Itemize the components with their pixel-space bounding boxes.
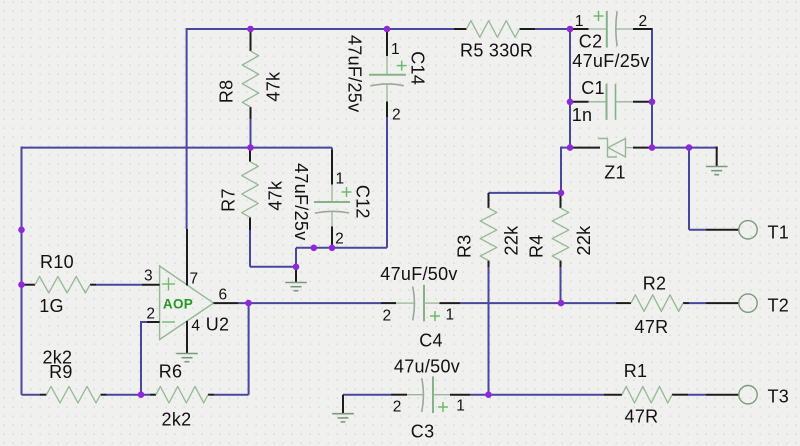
label R6: [159, 362, 183, 382]
wire C2/C1/Z1 left vertical: [569, 29, 571, 148]
wire left vertical to op-amp pin 7: [186, 28, 188, 229]
svg-text:1: 1: [446, 307, 455, 324]
value 47R of R1: [625, 407, 659, 427]
value 47k of R7: [266, 180, 286, 211]
label C4: [419, 331, 443, 351]
svg-text:R7: R7: [219, 188, 239, 212]
junction C12 pin2: [329, 245, 336, 252]
capacitor C2 plate curved: [616, 11, 617, 46]
capacitor C14 plate +: [369, 74, 406, 76]
label R10: [40, 252, 74, 272]
value 2k2 of R6: [162, 410, 192, 430]
svg-text:R8: R8: [217, 79, 237, 103]
pin number 2 of C4: [383, 308, 392, 325]
svg-text:2: 2: [335, 231, 344, 248]
wire R1 to T3: [688, 394, 706, 396]
label T1: [768, 222, 790, 242]
resistor R10 body: [35, 276, 90, 293]
svg-text:R9: R9: [49, 362, 73, 382]
terminal T1 circle: [739, 221, 757, 239]
wire R3 bottom vertical: [488, 267, 490, 395]
terminal T3 pin: [706, 394, 739, 396]
svg-text:C2: C2: [579, 31, 603, 51]
capacitor C3 pin 2: [391, 394, 424, 396]
zener Z1 triangle: [608, 139, 626, 158]
capacitor C4 plate +: [423, 285, 425, 322]
wire R4 bottom: [560, 267, 562, 303]
svg-text:T2: T2: [768, 296, 790, 316]
op-amp pin 4: [186, 321, 188, 354]
label R1: [624, 361, 648, 381]
pin number 2: [146, 305, 155, 322]
wire C3 to R1: [470, 394, 604, 396]
wire R3R4 top rail: [489, 192, 562, 194]
capacitor C3 plate curved: [422, 378, 424, 412]
pin number 7: [190, 270, 199, 287]
svg-text:3: 3: [144, 267, 153, 284]
value 47k of R8: [264, 71, 284, 102]
capacitor C2 pin 1: [570, 28, 607, 30]
capacitor C1 pin 2: [616, 101, 653, 103]
terminal T3 circle: [739, 386, 757, 404]
junction R5-C2: [567, 26, 574, 33]
zener Z1 pin right: [626, 147, 653, 149]
wire R9 row left: [22, 394, 41, 396]
wire T1 branch vertical: [688, 148, 690, 230]
resistor R3 pins: [488, 193, 490, 267]
capacitor C3 plate +: [432, 376, 434, 413]
wire C12 corner drop: [331, 148, 333, 150]
resistor R9 body: [47, 386, 101, 403]
resistor R4 pins: [560, 193, 562, 267]
pin number 1 of C14: [391, 41, 400, 58]
wire feedback rail horizontal y=147: [22, 147, 333, 149]
wire R7 corner to ground node: [250, 266, 296, 268]
svg-text:2: 2: [393, 398, 402, 415]
wire Z1 left jog to R3R4 rail: [561, 147, 570, 193]
wire feedback rail vertical x=21: [21, 147, 23, 395]
junction Z1 right: [649, 144, 656, 151]
ground right of Z1 stem: [716, 147, 718, 167]
label U2: [206, 315, 230, 335]
svg-text:R4: R4: [527, 234, 547, 258]
value 1G of R10: [39, 296, 64, 316]
svg-text:T3: T3: [768, 387, 790, 407]
svg-text:1n: 1n: [572, 105, 593, 125]
wire C4 to R4 node: [460, 302, 616, 304]
capacitor C2 pin 2: [616, 28, 652, 30]
wire Z1 right to T1 branch: [652, 147, 689, 149]
pin number 2 of C14: [392, 106, 401, 123]
resistor R8 pins: [250, 29, 252, 119]
junction output-R6: [245, 300, 252, 307]
junction T1 branch: [686, 144, 693, 151]
wire C2 pin2 corner vertical: [651, 28, 653, 148]
svg-text:47uF/25v: 47uF/25v: [572, 51, 649, 71]
junction Z1 left: [567, 144, 574, 151]
junction cap rail A: [311, 245, 318, 252]
svg-text:AOP: AOP: [163, 296, 193, 311]
svg-text:47k: 47k: [264, 71, 284, 102]
svg-text:7: 7: [190, 270, 199, 287]
svg-text:R5 330R: R5 330R: [460, 41, 533, 61]
pin number 3: [144, 267, 153, 284]
polarity + of C4: [430, 311, 440, 321]
op-amp U2 plus input mark: [162, 278, 175, 291]
resistor R2 pins: [616, 302, 689, 304]
wire T1 branch to ground corner: [689, 147, 718, 149]
resistor R9 pins: [40, 394, 107, 396]
label R3: [454, 234, 474, 258]
svg-text:4: 4: [191, 317, 200, 334]
op-amp U2 minus input mark: [162, 321, 175, 323]
svg-text:22k: 22k: [502, 225, 522, 256]
svg-text:R1: R1: [624, 361, 648, 381]
wire R9 mid to R6: [107, 394, 151, 396]
label R9: [49, 362, 73, 382]
wire R2 to T2: [689, 302, 706, 304]
svg-text:2: 2: [639, 13, 648, 30]
svg-text:C3: C3: [411, 422, 435, 442]
svg-text:47uF/25v: 47uF/25v: [291, 163, 311, 240]
pin number 1 of C2: [575, 13, 584, 30]
resistor R10 pins: [22, 284, 97, 286]
junction C14 top: [384, 26, 391, 33]
resistor R2 body: [631, 295, 683, 312]
resistor R8 body: [242, 51, 259, 107]
value 22k of R4: [574, 225, 594, 256]
wire R7 bottom vertical: [249, 230, 251, 267]
resistor R6 body: [156, 386, 208, 403]
svg-text:2k2: 2k2: [162, 410, 192, 430]
value 47R of R2: [635, 317, 669, 337]
svg-text:C14: C14: [408, 51, 428, 85]
zener Z1 pin left: [570, 147, 600, 149]
resistor R5 pins: [454, 28, 535, 30]
pin number 2 of C2: [639, 13, 648, 30]
capacitor C3 pin 1: [433, 394, 470, 396]
resistor R7 body: [242, 162, 259, 218]
junction C1 right: [649, 99, 656, 106]
svg-text:6: 6: [219, 286, 228, 303]
svg-text:1: 1: [336, 170, 345, 187]
wire output row to C4: [238, 302, 381, 304]
capacitor C12 plate +: [314, 201, 350, 203]
junction R8-R7 node: [247, 144, 254, 151]
svg-text:47u/50v: 47u/50v: [394, 357, 460, 377]
polarity + of C12: [342, 187, 352, 197]
op-amp U2 triangle: [160, 266, 214, 340]
resistor R5 body: [467, 21, 520, 38]
wire C3 ground corner: [343, 394, 391, 396]
svg-text:2: 2: [383, 308, 392, 325]
op-amp pin 6: [214, 302, 239, 304]
svg-text:2: 2: [146, 305, 155, 322]
svg-text:R3: R3: [454, 234, 474, 258]
label R8: [217, 79, 237, 103]
value 22k of R3: [502, 225, 522, 256]
junction left rail R10: [18, 281, 25, 288]
svg-text:C12: C12: [353, 185, 373, 219]
pin number 6: [219, 286, 228, 303]
junction C4-R4: [558, 300, 565, 307]
polarity + of C2: [594, 11, 604, 21]
ground under op-amp: [176, 354, 198, 362]
svg-text:R10: R10: [40, 252, 74, 272]
terminal T1 pin: [706, 229, 739, 231]
junction R8 top: [247, 26, 254, 33]
op-amp U2 AOP text: [163, 296, 193, 311]
ground under op-amp stem: [186, 353, 188, 355]
wire R10 to pin 3: [96, 284, 142, 286]
wire pin 2 corner: [141, 321, 147, 395]
label T2: [768, 296, 790, 316]
capacitor C1 pin 1: [570, 101, 607, 103]
svg-text:U2: U2: [206, 315, 230, 335]
capacitor C14 plate curved: [370, 84, 403, 86]
wire R8 bottom to junction: [250, 119, 252, 148]
svg-text:47uF/25v: 47uF/25v: [345, 35, 365, 112]
value 47uF/25v of C12: [291, 163, 311, 240]
label C14: [408, 51, 428, 85]
capacitor C12 pin 2: [331, 212, 333, 248]
svg-text:47R: 47R: [625, 407, 659, 427]
svg-text:1G: 1G: [39, 296, 64, 316]
capacitor C14 pin 2: [386, 85, 388, 118]
wire C14 pin2 vertical: [386, 117, 388, 248]
capacitor C12 plate curved: [315, 211, 349, 213]
polarity + of C3: [438, 402, 448, 412]
wire T1 horizontal: [689, 229, 706, 231]
value 47uF/50v of C4: [380, 264, 457, 284]
ground below C12 stem: [295, 267, 297, 282]
capacitor C14 pin 1: [386, 29, 388, 75]
svg-text:47uF/50v: 47uF/50v: [380, 264, 457, 284]
svg-text:R6: R6: [159, 362, 183, 382]
label Z1: [604, 163, 626, 183]
junction ground node below C12: [293, 264, 300, 271]
label C2: [579, 31, 603, 51]
svg-text:47k: 47k: [266, 180, 286, 211]
resistor R3 body: [480, 208, 497, 261]
label R2: [643, 274, 667, 294]
ground left of C3: [332, 414, 354, 422]
junction C3-R3: [485, 391, 492, 398]
junction left rail A: [18, 227, 25, 234]
svg-text:1: 1: [456, 397, 465, 414]
capacitor C4 pin 2: [381, 302, 415, 304]
op-amp pin 3: [142, 284, 160, 286]
polarity + of C14: [397, 61, 407, 71]
label R4: [527, 234, 547, 258]
resistor R7 pins: [249, 148, 251, 230]
resistor R6 pins: [150, 394, 214, 396]
value 47u/50v of C3: [394, 357, 460, 377]
wire top bus from corner to R5: [187, 28, 454, 30]
label R7: [219, 188, 239, 212]
label C1: [581, 78, 605, 98]
pin number 1 of C12: [336, 170, 345, 187]
wire output riser x=248: [248, 303, 250, 395]
capacitor C4 plate curved: [413, 287, 415, 321]
pin number 2 of C3: [393, 398, 402, 415]
label C12: [353, 185, 373, 219]
svg-text:22k: 22k: [574, 225, 594, 256]
capacitor C12 pin 1: [331, 150, 333, 202]
label C3: [411, 422, 435, 442]
wire cap rail y=248: [296, 247, 387, 249]
zener Z1 cathode bar: [598, 139, 617, 158]
label R5 330R: [460, 41, 533, 61]
wire R5 right to C2 node: [535, 28, 570, 30]
op-amp pin 2: [147, 321, 160, 323]
value 2k2 of R9: [42, 348, 72, 368]
label T3: [768, 387, 790, 407]
pin number 2 of C12: [335, 231, 344, 248]
resistor R4 body: [552, 208, 569, 261]
svg-text:1: 1: [391, 41, 400, 58]
capacitor C1 plates: [607, 84, 616, 120]
svg-text:C1: C1: [581, 78, 605, 98]
pin number 4: [191, 317, 200, 334]
value 47uF/25v of C14: [345, 35, 365, 112]
junction R3R4 rail: [558, 190, 565, 197]
wire R6 to output riser: [214, 394, 249, 396]
value 47uF/25v of C2: [572, 51, 649, 71]
svg-text:R2: R2: [643, 274, 667, 294]
svg-text:C4: C4: [419, 331, 443, 351]
svg-text:T1: T1: [768, 222, 790, 242]
wire ground node up to cap rail: [295, 248, 297, 267]
terminal T2 pin: [706, 302, 739, 304]
junction R9-pin2: [138, 391, 145, 398]
svg-text:47R: 47R: [635, 317, 669, 337]
terminal T2 circle: [739, 294, 757, 312]
pin number 1 of C4: [446, 307, 455, 324]
resistor R1 body: [622, 386, 672, 403]
capacitor C2 plate +: [606, 11, 608, 48]
ground right of Z1: [706, 167, 728, 175]
svg-text:2: 2: [392, 106, 401, 123]
ground left of C3 stem: [342, 395, 344, 414]
junction C1 left: [567, 99, 574, 106]
value 1n of C1: [572, 105, 593, 125]
pin number 1 of C3: [456, 397, 465, 414]
op-amp pin 7: [186, 229, 188, 286]
ground below C12: [285, 283, 307, 291]
capacitor C4 pin 1: [424, 302, 460, 304]
svg-text:1: 1: [575, 13, 584, 30]
svg-text:Z1: Z1: [604, 163, 626, 183]
resistor R1 pins: [604, 394, 688, 396]
